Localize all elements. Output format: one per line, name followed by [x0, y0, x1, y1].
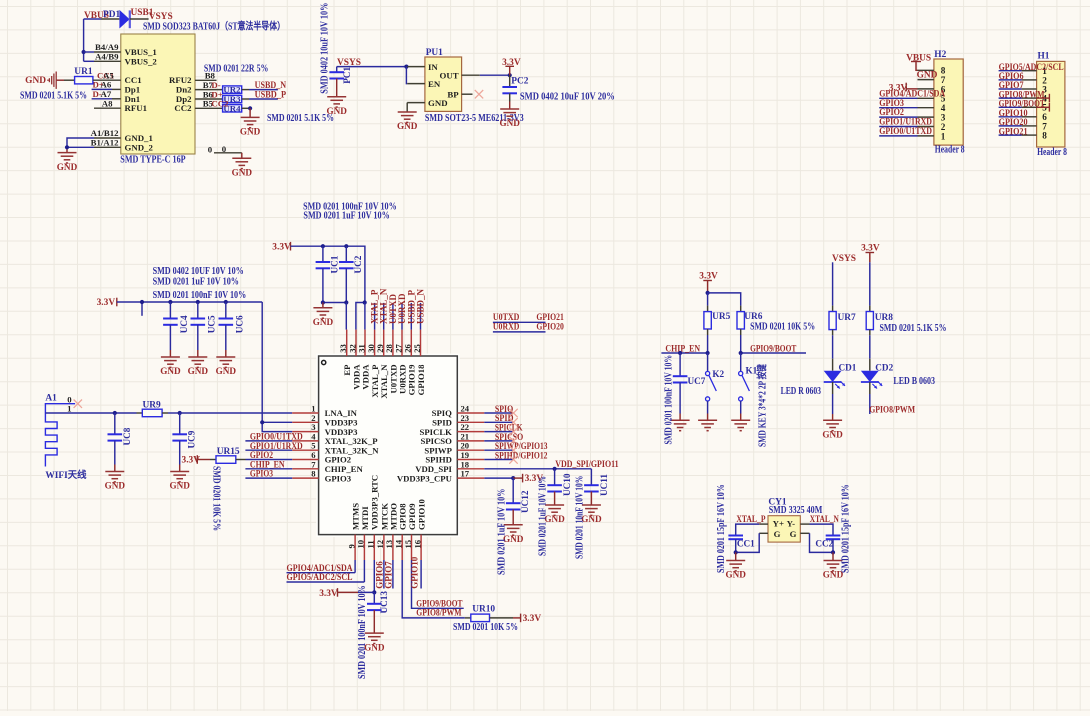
wire EP pin up [345, 303, 347, 330]
capacitor UC2 [339, 246, 354, 302]
PU1 EN pin stub [407, 83, 425, 85]
svg-text:1: 1 [941, 131, 946, 141]
svg-text:UC5: UC5 [207, 315, 217, 333]
svg-text:3.3V: 3.3V [272, 243, 291, 253]
capacitor UC11 [584, 485, 599, 505]
net D- and pin A7 [92, 89, 112, 99]
svg-text:UC11: UC11 [599, 474, 609, 496]
svg-text:B1/A12: B1/A12 [91, 137, 119, 147]
svg-text:IN: IN [428, 62, 438, 72]
net labels on top pins 30-25 [370, 288, 426, 329]
switch K1 [739, 353, 750, 420]
net GPIO2 to pin6 [246, 451, 293, 461]
junction rail-UC5 [196, 300, 200, 304]
no-connect X at BP [475, 90, 483, 98]
svg-text:SMD 0201 10nF 10V 10%: SMD 0201 10nF 10V 10% [575, 476, 586, 559]
svg-text:GPIO7: GPIO7 [384, 561, 394, 589]
ground symbol below PC1 [326, 97, 347, 116]
junction CC2 gnd [831, 550, 835, 554]
ground symbol below CD1 [822, 420, 843, 439]
wire IN to EN [405, 67, 408, 84]
svg-text:SMD 0402 10uF 10V 20%: SMD 0402 10uF 10V 20% [520, 91, 615, 102]
svg-text:SMD 0201 1uF 10V 10%: SMD 0201 1uF 10V 10% [538, 476, 549, 556]
CY1 pin names [773, 519, 797, 539]
ground symbol below UC7 [671, 420, 690, 430]
svg-text:UR8: UR8 [875, 313, 894, 323]
svg-text:SMD 0201 10K 5%: SMD 0201 10K 5% [453, 622, 518, 633]
svg-text:16: 16 [412, 539, 422, 548]
svg-text:VBUS_2: VBUS_2 [125, 56, 158, 66]
net SPIHD/GPIO12 on pin19 [484, 451, 547, 461]
junction UC2 top [344, 244, 348, 248]
svg-text:GPIO8/PWM: GPIO8/PWM [416, 609, 461, 619]
ground symbol below CC2 [823, 561, 844, 580]
svg-text:SMD 0201 100nF 10V 10%: SMD 0201 100nF 10V 10% [663, 355, 674, 445]
svg-text:Y+: Y+ [773, 519, 784, 529]
3.3V port at pin17 [513, 474, 543, 484]
svg-text:GND: GND [232, 167, 253, 177]
svg-text:GPIO9/BOOT: GPIO9/BOOT [750, 344, 797, 354]
wire VBUS horizontal to diode [84, 18, 101, 20]
svg-text:UR7: UR7 [838, 313, 857, 323]
svg-text:GND: GND [397, 121, 418, 131]
capacitor CC1 [728, 536, 743, 553]
ground symbol below UC13 [364, 633, 385, 652]
wire CD1 to ground [832, 382, 834, 420]
svg-text:UC8: UC8 [122, 427, 132, 445]
wire pin31 down [364, 303, 366, 330]
usb shield jumper pins 0 0 [208, 144, 242, 154]
PU1 GND pin stub and wire [407, 103, 425, 112]
switch K2 [706, 353, 717, 420]
no-connect X at SPIHD/GPIO12 [509, 455, 517, 463]
wire jumper to ground [241, 153, 243, 158]
svg-text:SMD 0201 5.1K 5%: SMD 0201 5.1K 5% [267, 113, 334, 124]
junction at PC2 [508, 73, 512, 77]
resistor UR5 [704, 293, 711, 353]
svg-text:SMD 0201 5.1K 5%: SMD 0201 5.1K 5% [20, 91, 87, 102]
svg-text:SMD 0201 1uF 10V 10%: SMD 0201 1uF 10V 10% [153, 277, 239, 288]
3.3V port at PU1 OUT [502, 58, 521, 75]
wire PU1 OUT to 3.3V [462, 74, 510, 76]
svg-text:BP: BP [447, 89, 459, 99]
wire 3.3V drop to VDD3P3 pins 2-3 [262, 302, 292, 432]
svg-text:OUT: OUT [440, 70, 459, 80]
junction VDDA [363, 300, 367, 304]
wire VBUS vertical [83, 19, 85, 61]
wire pin11 to 3.3V [373, 560, 375, 592]
svg-text:CD1: CD1 [839, 362, 857, 372]
net GPIO7 at H1 pin3 [999, 81, 1024, 91]
svg-text:SMD 0402 10uF 10V 10%: SMD 0402 10uF 10V 10% [319, 3, 330, 94]
ground symbol below UC8 [105, 472, 126, 491]
wire VSYS to UR7 [832, 262, 834, 305]
resistor UR8 [866, 306, 873, 336]
junction UC9 [178, 411, 182, 415]
svg-text:0: 0 [222, 144, 227, 154]
svg-text:VSYS: VSYS [832, 254, 856, 264]
net GPIO7 on pin13 [384, 560, 394, 589]
MCU bottom pin numbers [346, 539, 422, 548]
svg-text:CC2: CC2 [174, 103, 192, 113]
svg-text:K1: K1 [746, 366, 758, 376]
ground symbol below UC10 [544, 505, 565, 524]
junction 3.3V split [706, 291, 710, 295]
svg-text:XTAL_P: XTAL_P [736, 515, 765, 525]
3.3V port at UR10 [521, 614, 542, 624]
net D+ and pin A6 [92, 80, 112, 90]
net GPIO10 at H1 pin6 [999, 109, 1028, 119]
svg-text:MTDI: MTDI [360, 506, 370, 530]
wire VDD_SPI down to UC11 [590, 469, 592, 485]
net USBD_N label and wire [249, 81, 286, 91]
resistor UR10 [465, 614, 521, 622]
capacitor UC13 [367, 592, 382, 633]
ground symbol below K1 [731, 420, 750, 430]
net GPIO3 at H2 pin4 [879, 99, 917, 109]
svg-text:UR5: UR5 [712, 312, 731, 322]
net GPIO0/U1TXD to pin4 [245, 433, 302, 443]
pin label B5 with net CC2 [203, 99, 229, 109]
wire to pin B4/A9 [84, 51, 94, 53]
svg-text:SMD 0201 1uF 10V 10%: SMD 0201 1uF 10V 10% [496, 489, 507, 575]
svg-text:SMD SOD323 BAT60J（ST意法半导体）: SMD SOD323 BAT60J（ST意法半导体） [143, 19, 285, 32]
MCU bottom pin names [351, 475, 427, 530]
wire UR9 to chip LNA_IN [180, 412, 293, 414]
header H1 body [1037, 61, 1065, 147]
CY1 left G pin wire [736, 533, 768, 552]
svg-text:GND: GND [25, 76, 46, 86]
net bridge U0RXD - GPIO20 [493, 323, 564, 333]
svg-text:SMD 0201 100nF 10V 10%: SMD 0201 100nF 10V 10% [153, 290, 247, 301]
svg-text:CD2: CD2 [875, 362, 893, 372]
net 3.3V port above UR5/UR6 [699, 271, 718, 293]
antenna A1 meander [45, 404, 75, 467]
svg-text:UC12: UC12 [520, 490, 530, 513]
svg-text:GND: GND [917, 71, 938, 81]
svg-text:3.3V: 3.3V [523, 614, 542, 624]
svg-text:0: 0 [208, 145, 213, 155]
svg-text:GPIO18: GPIO18 [416, 364, 426, 396]
svg-text:LED R 0603: LED R 0603 [781, 386, 821, 397]
ground symbol below UR4 [240, 117, 261, 136]
net GPIO9/BOOT at H1 pin5 [999, 100, 1050, 112]
svg-text:GPIO8/PWM: GPIO8/PWM [869, 406, 915, 416]
svg-text:25: 25 [412, 344, 422, 353]
net 3.3V port at UR15 [182, 455, 211, 465]
svg-text:Header 8: Header 8 [1037, 147, 1067, 158]
net SPICSO on pin21 [484, 433, 523, 443]
net 3.3V port above MCU [272, 242, 291, 253]
svg-text:A8: A8 [102, 99, 113, 109]
MCU right pin names [397, 408, 453, 483]
wire UR7 to CD1 [832, 335, 834, 370]
net GPIO6 at H1 pin2 [999, 72, 1024, 82]
wire 3.3V to UR8 [869, 262, 871, 305]
net 3.3V port at UR8 [861, 243, 880, 262]
net GPIO9/BOOT from pin15 [412, 560, 464, 609]
ground symbol below UC1 [313, 308, 334, 327]
resistor UR9 [137, 409, 180, 417]
USB1 left pin stubs [94, 52, 121, 147]
no-connect X at SPICSO [509, 437, 517, 445]
no-connect X at SPIQ [509, 409, 517, 417]
svg-text:SMD 0201 5.1K 5%: SMD 0201 5.1K 5% [880, 323, 947, 334]
wire 3.3V to UR6 [708, 293, 741, 306]
svg-text:VDD3P3_CPU: VDD3P3_CPU [397, 473, 453, 483]
capacitor CC2 [826, 536, 841, 553]
svg-text:GPIO3: GPIO3 [325, 473, 352, 483]
net bridge U0TXD - GPIO21 [493, 313, 564, 323]
svg-text:GND: GND [216, 366, 237, 376]
svg-text:UC10: UC10 [562, 473, 572, 496]
ground symbol below UC4 [160, 357, 181, 376]
svg-text:H1: H1 [1038, 52, 1050, 62]
svg-text:UC13: UC13 [379, 591, 389, 614]
wire CC2 to ground [832, 552, 834, 560]
capacitor UC7 [673, 353, 688, 420]
net SPID on pin23 [484, 414, 513, 424]
svg-text:UC7: UC7 [688, 376, 706, 386]
svg-text:SMD TYPE-C 16P: SMD TYPE-C 16P [120, 155, 185, 166]
PU1 BP pin stub with no-connect [462, 93, 473, 95]
pin label A5 with net CC1 [97, 71, 114, 81]
stub on rail [141, 302, 143, 316]
svg-text:GND: GND [188, 366, 209, 376]
no-connect X at SPID [509, 418, 517, 426]
svg-text:PD1: PD1 [103, 10, 120, 20]
PU1 pin names [428, 62, 459, 108]
junction CC1 gnd [734, 550, 738, 554]
junction at UR4 output [248, 106, 252, 110]
ground symbol below UC6 [216, 357, 237, 376]
capacitor PC1 [329, 67, 344, 97]
net GPIO5/ADC2/SCL at H1 pin1 [999, 63, 1064, 73]
wire VDDA feed [356, 303, 365, 330]
svg-text:Header 8: Header 8 [935, 144, 965, 155]
capacitor UC10 [547, 469, 562, 505]
capacitor UC1 [316, 246, 331, 302]
svg-text:GPIO10: GPIO10 [409, 556, 419, 589]
svg-text:XTAL_N: XTAL_N [810, 515, 839, 525]
MCU top pin stubs 33-25 [347, 330, 421, 356]
svg-text:UR1: UR1 [74, 67, 93, 77]
wire UR4 to ground [249, 108, 251, 117]
capacitor UC9 [172, 413, 187, 472]
svg-text:GND: GND [57, 162, 78, 172]
no-connect X at SPIWP/GPIO13 [509, 446, 517, 454]
ground symbol below UC12 [503, 525, 524, 544]
svg-text:UR6: UR6 [744, 312, 763, 322]
capacitor UC6 [219, 302, 234, 357]
crystal CY1 body [768, 516, 800, 542]
ground symbol below UC9 [169, 472, 190, 491]
values for UC1/UC2 [303, 201, 397, 221]
junction rail-UC6 [224, 300, 228, 304]
svg-text:UC6: UC6 [235, 315, 245, 333]
MCU top pin names [342, 364, 426, 399]
net XTAL_P wire and label [736, 515, 768, 535]
wire 3.3V rail [117, 301, 262, 303]
pin label B6 with net D+ [203, 89, 223, 99]
capacitor UC5 [191, 302, 206, 357]
svg-text:VDD_SPI/GPIO11: VDD_SPI/GPIO11 [555, 460, 619, 470]
junction UC8 [113, 411, 117, 415]
net GPIO8/PWM at H1 pin4 [999, 90, 1050, 102]
svg-text:U0RXD: U0RXD [493, 323, 520, 333]
svg-text:VDD3P3_RTC: VDD3P3_RTC [370, 475, 380, 530]
capacitor PC2 [502, 75, 517, 109]
MCU right pin numbers [461, 404, 470, 479]
capacitor UC4 [163, 302, 178, 357]
capacitor UC8 [108, 413, 123, 472]
svg-text:SMD 0201 100nF 10V 10%: SMD 0201 100nF 10V 10% [357, 585, 368, 679]
svg-text:GPIO9: GPIO9 [407, 503, 417, 530]
ground symbol below jumper [232, 158, 253, 177]
junction UR6/K1 [739, 351, 743, 355]
ground symbol below PC2 [499, 109, 520, 128]
H2 pin stubs [918, 70, 934, 136]
svg-text:PU1: PU1 [426, 48, 443, 58]
svg-text:3.3V: 3.3V [319, 589, 338, 599]
LED CD1 (red) [824, 371, 845, 389]
svg-text:GPIO10: GPIO10 [417, 498, 427, 530]
resistor UR1 [56, 77, 121, 84]
svg-text:LED B 0603: LED B 0603 [893, 376, 935, 387]
junction UC13 [372, 590, 376, 594]
net CHIP_EN wire [661, 344, 707, 354]
net GPIO3 to pin8 [245, 470, 292, 480]
svg-text:GND: GND [428, 98, 448, 108]
svg-text:8: 8 [1042, 131, 1047, 141]
svg-text:CC2: CC2 [815, 538, 833, 548]
svg-text:SMD 0201 15pF 16V 10%: SMD 0201 15pF 16V 10% [841, 484, 852, 573]
svg-text:GPIO5/ADC2/SCL: GPIO5/ADC2/SCL [287, 573, 353, 583]
svg-text:SMD 0201 15pF 16V 10%: SMD 0201 15pF 16V 10% [716, 484, 727, 573]
svg-text:PC1: PC1 [342, 67, 352, 84]
MCU bottom pin stubs 9-16 [355, 535, 421, 560]
junction gnd row right [344, 300, 348, 304]
no-connect X at SPICLK [509, 427, 517, 435]
net GPIO2 at H2 pin3 [879, 108, 917, 118]
svg-text:UC4: UC4 [179, 315, 189, 333]
values for UC4-UC6 [153, 266, 247, 301]
svg-text:USBD_P: USBD_P [255, 90, 287, 100]
USB1 inner pin names [125, 47, 193, 152]
H1 pin numbers [1042, 66, 1047, 140]
svg-text:A1: A1 [45, 394, 57, 404]
junction pin2 [260, 420, 264, 424]
resistor UR15 [210, 456, 246, 464]
PU1 IN pin stub [407, 66, 425, 68]
svg-text:CC2: CC2 [211, 99, 229, 109]
ground symbol below UC11 [581, 505, 602, 524]
net GPIO1/U1RXD to pin5 [245, 442, 302, 452]
svg-text:SMD 0201 1uF 10V 10%: SMD 0201 1uF 10V 10% [303, 210, 389, 221]
svg-text:GND: GND [313, 317, 334, 327]
net VBUS port at H2 pin8 [906, 54, 931, 71]
svg-text:11: 11 [366, 540, 376, 548]
net XTAL_N wire and label [800, 515, 839, 535]
junction rail-UC4 [168, 300, 172, 304]
no-connect X at antenna pin 0 [74, 400, 82, 408]
svg-text:USBD_N: USBD_N [416, 288, 426, 324]
net GPIO1/U1RXD at H2 pin2 [879, 118, 932, 128]
net GPIO8/PWM from pin14 to UR10 [402, 560, 465, 619]
net GPIO9/BOOT wire [741, 344, 806, 354]
wire pin17 to 3.3V [484, 477, 513, 479]
net USBD_P label and wire [249, 90, 286, 100]
svg-text:GND_2: GND_2 [125, 142, 154, 152]
resistor UR2 [195, 86, 249, 93]
H2 pin numbers [941, 66, 946, 142]
wire to pin A4/B9 [84, 60, 94, 62]
svg-text:GND: GND [499, 118, 520, 128]
wire UR8 to CD2 [869, 335, 871, 370]
resistor UR6 [737, 306, 744, 353]
svg-text:8: 8 [311, 469, 316, 479]
H1 pin stubs [1022, 71, 1037, 135]
3.3V port at pin11 [319, 588, 374, 599]
svg-text:UR10: UR10 [472, 605, 495, 615]
svg-text:GND: GND [105, 481, 126, 491]
svg-text:SMD KEY 3*4*2 2P 按键: SMD KEY 3*4*2 2P 按键 [755, 363, 768, 447]
junction UC1 top [321, 244, 325, 248]
svg-text:SMD 0201 10K 5%: SMD 0201 10K 5% [211, 466, 222, 531]
svg-text:31: 31 [356, 344, 366, 353]
MCU U1 body [316, 354, 460, 537]
svg-text:UR15: UR15 [217, 447, 240, 457]
svg-text:UC1: UC1 [330, 255, 340, 273]
junction UC7 [678, 351, 682, 355]
pin label B7 with net D- [203, 80, 221, 90]
MCU left pin numbers [311, 404, 316, 479]
wire ground row below UC1/UC2 [323, 302, 346, 304]
svg-text:SMD 0201 10K 5%: SMD 0201 10K 5% [750, 322, 815, 333]
resistor UR7 [829, 306, 836, 336]
net GPIO0/U1TXD at H2 pin1 [879, 127, 932, 137]
CY1 right G pin wire [800, 533, 833, 552]
junction at PU1 IN [404, 65, 408, 69]
svg-text:G: G [774, 529, 781, 539]
ground symbol below USB1 [57, 153, 78, 172]
net GPIO20 at H1 pin7 [999, 118, 1028, 128]
wire CC1 to ground [735, 552, 737, 560]
net CHIP_EN to pin7 [245, 460, 292, 470]
svg-text:A4/B9: A4/B9 [95, 51, 119, 61]
header H2 body [934, 59, 963, 145]
net GPIO21 at H1 pin8 [999, 127, 1028, 137]
USB Type-C connector USB1 body [121, 34, 195, 154]
ground port at UR1 (rotated GND) [25, 72, 56, 89]
MCU left pin names [325, 408, 380, 483]
junction UC10 tap [553, 467, 557, 471]
MCU right pin stubs 24-17 [457, 413, 484, 478]
net SPICLK on pin22 [484, 424, 523, 434]
junction UR5/K2 [706, 351, 710, 355]
MCU pin1 marker [322, 360, 326, 364]
junction rail-stub [140, 300, 144, 304]
voltage regulator PU1 body [425, 57, 462, 111]
junction UC12 tap [511, 476, 515, 480]
svg-text:GND: GND [160, 366, 181, 376]
resistor UR4 [195, 105, 250, 112]
wire VSYS to PU1 IN [337, 66, 407, 68]
junction gnd row left [321, 300, 325, 304]
wire antenna to UR9 [45, 412, 136, 414]
ground symbol below CC1 [725, 561, 746, 580]
wire CD2 to GPIO8/PWM [869, 382, 871, 414]
